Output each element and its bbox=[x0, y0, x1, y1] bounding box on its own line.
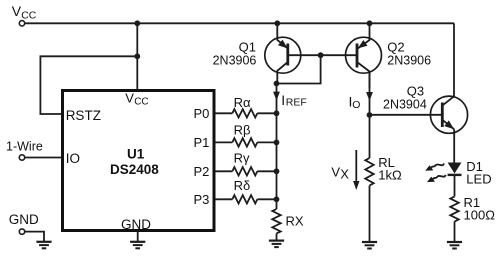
ground symbol at GND terminal bbox=[36, 242, 51, 249]
node bus-P0 junction bbox=[274, 110, 280, 116]
node bus-P3 junction bbox=[274, 196, 280, 202]
svg-text:P1: P1 bbox=[194, 135, 210, 150]
node rail-U1 junction bbox=[134, 20, 140, 26]
svg-text:Rβ: Rβ bbox=[234, 122, 251, 137]
node Q1 collector junction bbox=[274, 81, 280, 87]
U1 pin label VCC bbox=[125, 90, 148, 107]
svg-text:GND: GND bbox=[121, 217, 151, 232]
svg-text:CC: CC bbox=[134, 97, 148, 108]
ground symbol at U1 GND bbox=[130, 242, 145, 249]
ground symbol at R1 bbox=[447, 242, 462, 249]
wire P0 lead bbox=[215, 112, 232, 114]
node VCC-RSTZ split junction bbox=[134, 53, 140, 59]
node rail-Q2 junction bbox=[367, 20, 373, 26]
wire VCC rail bbox=[25, 22, 454, 24]
svg-text:Q2: Q2 bbox=[387, 40, 404, 55]
wire Rdelta to reference bus bbox=[257, 198, 276, 200]
wire P1 lead bbox=[215, 141, 232, 143]
node rail-Q1 junction bbox=[274, 20, 280, 26]
transistor Q3 2N3904 bbox=[383, 84, 468, 134]
svg-text:LED: LED bbox=[466, 172, 491, 187]
wire RSTZ connection bbox=[40, 56, 137, 114]
LED light emission arrow 1 bbox=[424, 159, 445, 174]
wire P3 lead bbox=[215, 198, 232, 200]
resistor Rdelta bbox=[232, 178, 257, 204]
resistor R1 100&#937; bbox=[450, 195, 495, 223]
svg-text:V: V bbox=[331, 165, 340, 180]
svg-text:Rδ: Rδ bbox=[234, 178, 251, 193]
node bus-P2 junction bbox=[274, 168, 280, 174]
svg-text:2N3906: 2N3906 bbox=[213, 53, 257, 67]
svg-text:I: I bbox=[281, 92, 285, 108]
wire Rgamma to reference bus bbox=[257, 170, 276, 172]
wire Q2 collector to RL node bbox=[369, 72, 371, 116]
resistor RL 1k&#937; bbox=[365, 155, 402, 186]
svg-text:1kΩ: 1kΩ bbox=[378, 168, 402, 183]
terminal 1-Wire bbox=[6, 139, 43, 160]
svg-text:U1: U1 bbox=[127, 147, 145, 162]
power terminal VCC bbox=[12, 3, 37, 26]
wire RL to ground bbox=[369, 186, 371, 242]
svg-text:2N3904: 2N3904 bbox=[383, 98, 427, 112]
wire U1 VCC pin feed bbox=[136, 23, 138, 89]
current arrow IREF bbox=[273, 92, 307, 109]
resistor RX bbox=[272, 209, 304, 233]
node base junction bbox=[318, 52, 324, 58]
IC U1 DS2408 body bbox=[63, 91, 215, 231]
svg-text:Rγ: Rγ bbox=[234, 150, 250, 165]
svg-text:CC: CC bbox=[21, 9, 37, 21]
resistor Ralpha bbox=[232, 95, 257, 117]
terminal GND bbox=[9, 212, 39, 234]
current arrow IO bbox=[349, 92, 373, 111]
transistor Q1 2N3906 bbox=[213, 23, 301, 83]
svg-text:REF: REF bbox=[286, 96, 307, 108]
resistor Rgamma bbox=[232, 150, 257, 175]
node Q2 collector - Q3 base - RL junction bbox=[367, 112, 373, 118]
wire Q1 base to Q2 base bbox=[288, 54, 357, 56]
wire Q3 base lead bbox=[370, 114, 443, 116]
svg-text:P0: P0 bbox=[194, 106, 210, 121]
wire reference current bus bbox=[276, 84, 278, 210]
svg-text:2N3906: 2N3906 bbox=[387, 53, 431, 67]
svg-text:P3: P3 bbox=[194, 192, 210, 207]
ground symbol at RL bbox=[362, 242, 377, 249]
svg-text:IO: IO bbox=[66, 151, 80, 166]
wire rail to Q3 collector bbox=[453, 23, 455, 96]
wire diode connection (Q1 base to collector) bbox=[277, 55, 321, 83]
wire U1 GND stub bbox=[137, 232, 139, 242]
svg-text:100Ω: 100Ω bbox=[464, 207, 496, 222]
wire D1 to R1 bbox=[454, 176, 456, 197]
wire 1-Wire to IO pin bbox=[25, 157, 62, 159]
svg-text:P2: P2 bbox=[194, 164, 210, 179]
resistor Rbeta bbox=[232, 122, 257, 146]
wire Ralpha to reference bus bbox=[257, 112, 276, 114]
svg-text:RX: RX bbox=[286, 214, 304, 229]
svg-text:V: V bbox=[125, 90, 134, 105]
svg-text:1-Wire: 1-Wire bbox=[6, 139, 43, 153]
svg-text:Q3: Q3 bbox=[407, 84, 424, 99]
wire Q3 emitter to D1 bbox=[453, 129, 455, 162]
svg-text:RSTZ: RSTZ bbox=[66, 108, 101, 123]
svg-text:Q1: Q1 bbox=[239, 40, 256, 55]
wire R1 to ground bbox=[454, 222, 456, 242]
svg-text:X: X bbox=[340, 166, 349, 181]
wire P2 lead bbox=[215, 170, 232, 172]
wire RX to ground bbox=[276, 234, 278, 241]
node bus-P1 junction bbox=[274, 140, 280, 146]
ground symbol at RX bbox=[269, 241, 284, 248]
svg-text:GND: GND bbox=[9, 212, 39, 227]
wire junction to RL bbox=[369, 115, 371, 158]
wire GND terminal to ground bbox=[25, 232, 44, 242]
svg-text:DS2408: DS2408 bbox=[110, 162, 159, 177]
wire Rbeta to reference bus bbox=[257, 141, 276, 143]
voltage arrow VX bbox=[331, 150, 359, 190]
svg-text:Rα: Rα bbox=[234, 95, 251, 110]
LED light emission arrow 2 bbox=[426, 170, 447, 185]
transistor Q2 2N3906 bbox=[346, 23, 432, 88]
LED D1 bbox=[448, 159, 492, 187]
svg-text:O: O bbox=[352, 99, 360, 111]
